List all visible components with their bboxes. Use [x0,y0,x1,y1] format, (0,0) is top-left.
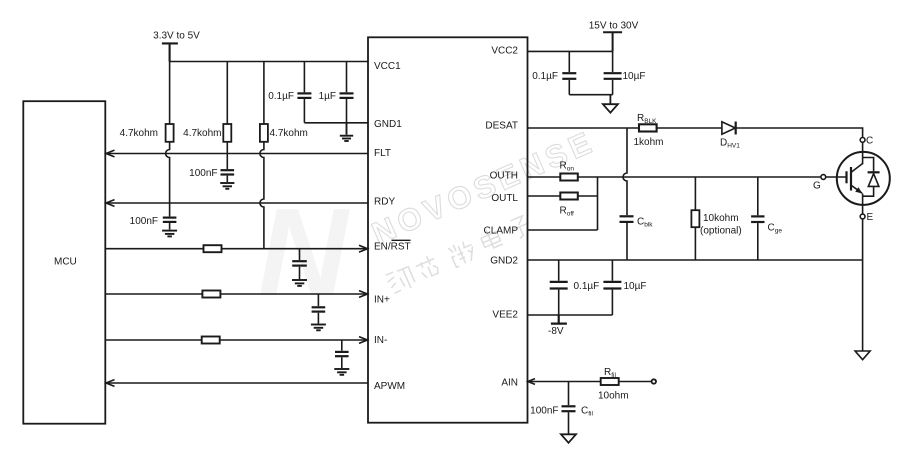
capacitor Cfil (100nF) [562,382,576,435]
supply terminal 15V to 30V [603,32,622,51]
resistor RBLK (1kohm) [639,124,657,131]
svg-text:4.7kohm: 4.7kohm [183,128,221,139]
svg-text:100nF: 100nF [130,216,158,227]
svg-text:EN/RST: EN/RST [374,242,411,253]
watermark Chinese characters [384,213,534,296]
wire IN+ [106,293,368,295]
svg-text:0.1µF: 0.1µF [574,281,600,292]
wire DESAT to diode [657,127,722,129]
svg-text:0.1µF: 0.1µF [268,91,294,102]
wire APWM [106,382,368,384]
svg-text:1kohm: 1kohm [634,137,664,148]
resistor Ron [560,174,578,181]
ground (Cfil, open triangle) [561,434,576,443]
wire GND2 rail [528,259,863,261]
IGBT Q1 [821,152,890,214]
series resistor on IN+ [202,291,220,298]
svg-text:CLAMP: CLAMP [484,225,519,236]
svg-text:VCC2: VCC2 [491,46,518,57]
collector diagonal [852,164,863,173]
series resistor on EN/RST [204,245,222,252]
ground (IN- cap, 3-bar) [334,369,349,375]
svg-text:GND1: GND1 [374,119,402,130]
wire VCC2 decoupling bottom [569,94,612,96]
emitter arrow [855,187,862,193]
ground (VCC2, open triangle) [603,95,618,113]
arrow AIN into IC [528,379,535,385]
svg-text:OUTH: OUTH [490,171,518,182]
wire OUTL to junction [578,195,598,197]
svg-text:FLT: FLT [374,148,391,159]
ground (GND1, 3-bar) [340,123,353,141]
MCU box [23,101,105,424]
svg-text:10kohm: 10kohm [703,213,739,224]
wire CLAMP [528,229,598,231]
capacitor on IN- line [335,340,349,368]
wire DESAT tap down to blanking network [623,128,627,215]
svg-text:(optional): (optional) [700,226,742,237]
capacitor 10uF (VCC2) [604,51,622,94]
wire OUTH [528,176,561,178]
svg-text:VCC1: VCC1 [374,61,401,72]
wire diode to collector [734,128,863,138]
supply terminal -8V [551,315,567,324]
supply terminal 3.3V to 5V [162,43,178,61]
emitter vertical inside [862,194,864,215]
svg-text:1µF: 1µF [319,91,336,102]
svg-text:E: E [867,212,874,223]
arrow IN+ into IC [359,291,368,298]
resistor pull-up 2 (4.7kohm) [223,62,231,154]
wire AIN to terminal [619,381,652,383]
capacitor 10uF (VEE2) [603,260,621,315]
resistor Roff [560,193,578,200]
arrow IN- into IC [359,337,368,344]
wire VCC2 [528,50,613,52]
arrow EN/RST into IC [359,245,368,252]
series resistor on IN- [202,337,220,344]
svg-text:IN+: IN+ [374,295,390,306]
wire RDY [106,202,368,204]
collector vertical inside [862,152,864,164]
wire DESAT [528,127,640,129]
svg-text:10ohm: 10ohm [598,391,629,402]
svg-text:-8V: -8V [548,326,564,337]
svg-text:GND2: GND2 [490,255,518,266]
ground (IN+ cap, 3-bar) [311,325,326,331]
svg-text:IN-: IN- [374,335,387,346]
capacitor 1uF (VCC1) [340,62,354,123]
svg-text:AIN: AIN [501,378,518,389]
svg-text:G: G [813,181,821,192]
ground (emitter, open triangle) [855,351,870,360]
wire OUTL/CLAMP tie vertical [597,177,599,230]
svg-text:APWM: APWM [374,381,405,392]
node C terminal [862,138,864,153]
node E terminal [862,214,864,351]
svg-text:VEE2: VEE2 [492,310,518,321]
svg-text:RDY: RDY [374,197,395,208]
wire VCC1 rail [170,61,368,63]
resistor 10kohm (optional) [691,177,699,260]
freewheeling diode branch [863,158,874,172]
svg-text:4.7kohm: 4.7kohm [270,128,308,139]
wire EN/RST [106,248,368,250]
capacitor 100nF (RDY) [163,203,177,230]
wire OUTL [528,195,561,197]
svg-text:10µF: 10µF [624,281,647,292]
node AIN input terminal [652,379,656,383]
gate bar [845,171,847,183]
watermark NOVOSENSE text [361,124,619,296]
svg-text:100nF: 100nF [530,405,558,416]
capacitor on IN+ line [312,294,326,324]
resistor Rfil (10ohm) [601,378,619,385]
svg-text:4.7kohm: 4.7kohm [120,128,158,139]
wire AIN [528,381,601,383]
wire FLT [106,153,368,155]
svg-text:MCU: MCU [54,257,77,268]
ground (FLT cap, 3-bar) [220,183,234,189]
arrow FLT into MCU [106,150,115,157]
resistor R pull-up 1 (4.7kohm) [166,62,174,204]
arrow APWM into MCU [106,380,115,387]
ground (EN cap, 3-bar) [292,280,307,286]
gate wire into IGBT [826,176,846,178]
capacitor 0.1uF (VCC2) [562,51,576,94]
gate driver IC U1 [368,37,528,422]
wire OUTH to gate [578,176,821,178]
svg-text:100nF: 100nF [189,168,217,179]
svg-text:N: N [258,184,350,322]
wire VEE2 [528,314,613,316]
arrow RDY into MCU [106,200,115,207]
capacitor Cblk [620,216,634,260]
emitter diagonal [852,186,863,194]
svg-text:10µF: 10µF [623,71,646,82]
svg-text:DESAT: DESAT [485,121,518,132]
svg-text:C: C [866,135,873,146]
capacitor 0.1uF (VEE2) [550,260,568,315]
ground (RDY cap, 3-bar) [162,231,177,237]
resistor pull-up 3 (4.7kohm) [260,62,268,249]
svg-text:3.3V to 5V: 3.3V to 5V [153,30,200,41]
capacitor 100nF (FLT) [221,154,235,183]
body bar [850,167,852,191]
capacitor 0.1uF (VCC1) [297,62,311,123]
wire GND1 [304,122,368,124]
svg-text:OUTL: OUTL [491,193,518,204]
wire IN- [106,339,368,341]
diode DHV1 [722,122,736,135]
svg-text:15V to 30V: 15V to 30V [589,21,639,32]
gate node circle [821,175,826,180]
svg-text:0.1µF: 0.1µF [532,71,558,82]
capacitor Cge [751,177,764,260]
capacitor on EN/RST line [292,249,307,279]
